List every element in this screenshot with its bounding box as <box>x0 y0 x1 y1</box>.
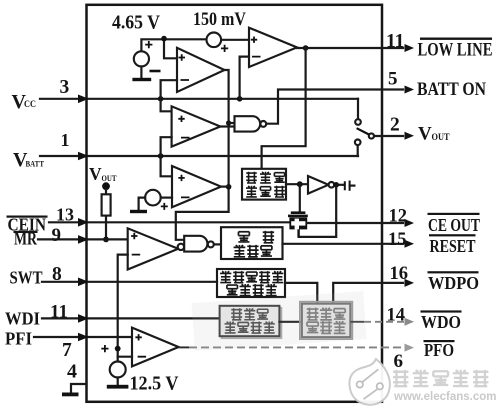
pin 11 LOW LINE arrowhead <box>405 44 415 52</box>
CJK text: chip select output control <box>246 172 285 197</box>
pin 15 arrowhead <box>405 240 415 248</box>
wire: compC- to VBATT rail <box>161 137 172 156</box>
pin 11 WDI arrowhead <box>78 314 89 323</box>
node: VBATT / compC- junction <box>158 153 164 159</box>
block: reset generator <box>221 227 283 259</box>
svg-text:V: V <box>418 124 432 145</box>
wire: block to inverter <box>286 183 308 185</box>
svg-text:RESET: RESET <box>430 236 476 256</box>
pin 9 arrowhead <box>78 235 89 244</box>
svg-text:4.65 V: 4.65 V <box>112 13 160 34</box>
wire: input detect to watchdog timer <box>279 321 302 323</box>
wire: WDO net (faded by watermark) <box>350 321 364 323</box>
block: chip select output control <box>242 169 286 200</box>
watermark CJK text <box>393 370 488 387</box>
pin 4 ground lead <box>71 384 87 393</box>
wire: low line down to chip-select block <box>262 48 306 169</box>
label RESET (active low) <box>429 234 476 236</box>
svg-text:www.elecfans.com: www.elecfans.com <box>393 391 496 403</box>
pin 13 arrowhead <box>78 218 89 227</box>
wire: WDI pin11 line <box>42 317 220 319</box>
wire: inverter out <box>334 184 344 186</box>
transistor Q1 (CE pass FET) <box>291 211 306 214</box>
IC boundary box <box>87 5 383 402</box>
wire: switch common to pin 2 <box>374 135 403 137</box>
NAND gate G2 with input bubble <box>178 244 184 250</box>
svg-text:3: 3 <box>60 77 70 98</box>
svg-text:11: 11 <box>50 302 68 323</box>
label MR (active low) <box>14 231 38 233</box>
pin 8 arrowhead <box>78 278 89 287</box>
voltage source V3 (offset) <box>145 190 161 206</box>
label WDO (active low) <box>421 310 462 312</box>
wire: CE OUT net to pin 12 <box>307 222 403 224</box>
pin 1 arrowhead <box>78 152 89 161</box>
block: reset watchdog timebase <box>217 269 285 297</box>
wire: SWT pin8 line <box>42 281 217 283</box>
wire: G1 output to BATT ON pin 5 <box>267 90 403 124</box>
capacitor C1 <box>345 181 350 191</box>
wire: compA- to Vcc rail and compC+ <box>161 80 177 111</box>
wire: gate drive down to FET gate <box>299 184 301 211</box>
wire: PFI pin7 line <box>34 336 132 338</box>
wire: inverter out down to FET source <box>299 185 337 237</box>
svg-text:OUT: OUT <box>102 174 118 183</box>
wire: compD output to bus <box>221 186 229 188</box>
pin 14 arrowhead (faded) <box>405 318 415 326</box>
svg-text:150 mV: 150 mV <box>193 10 247 30</box>
block: watchdog input detect <box>222 308 282 338</box>
pin 2 arrowhead <box>405 132 415 140</box>
resistor R1 (MR pull-up) <box>102 194 111 215</box>
wire: VOUT node to resistor <box>105 189 107 194</box>
svg-text:WDPO: WDPO <box>428 273 479 293</box>
wire: compE- down to 1.25V ref node <box>118 255 128 362</box>
wire: compC output to NAND G1 lower input <box>220 125 234 127</box>
pin 12 arrowhead <box>405 219 415 227</box>
wire: bus stub to NAND G1 upper input <box>229 122 235 124</box>
svg-text:12.5 V: 12.5 V <box>130 373 179 395</box>
NAND gate G1 <box>235 116 261 131</box>
watermark gray wash <box>192 291 367 351</box>
label CEIN (active low) <box>7 216 48 218</box>
svg-text:12: 12 <box>389 207 408 227</box>
svg-text:LOW LINE: LOW LINE <box>418 40 493 61</box>
svg-text:11: 11 <box>386 31 404 52</box>
svg-text:4: 4 <box>67 361 77 383</box>
svg-text:OUT: OUT <box>432 132 450 142</box>
svg-text:PFO: PFO <box>424 340 454 360</box>
CJK text: reset watchdog timebase <box>220 271 283 296</box>
node: bus to compD output <box>226 184 232 190</box>
svg-text:SWT: SWT <box>10 268 43 288</box>
wire: compF- to ref node <box>118 356 132 358</box>
svg-text:6: 6 <box>394 351 404 372</box>
voltage source V1 4.65V <box>134 51 149 66</box>
voltage source V2 150mV <box>207 33 222 48</box>
pin 6 arrowhead (faded) <box>405 344 415 352</box>
wire: Vcc rail pin3 to switch top <box>40 98 358 100</box>
pin 5 arrowhead <box>405 86 415 94</box>
svg-text:15: 15 <box>388 230 407 250</box>
svg-text:BATT ON: BATT ON <box>417 79 486 100</box>
label WDPO (active low) <box>428 271 479 273</box>
wire: VBATT rail down to compD+ <box>161 156 172 176</box>
CJK text: watchdog timer <box>307 308 346 334</box>
wire: V2 to compB+ <box>221 39 249 41</box>
svg-text:CE OUT: CE OUT <box>428 215 480 235</box>
wire: LOW LINE output net <box>297 47 403 49</box>
CJK text: watchdog input detect <box>225 308 275 333</box>
node: ref top junction <box>161 36 167 42</box>
label CE OUT (active low) <box>428 213 480 215</box>
svg-text:7: 7 <box>62 340 72 361</box>
wire: watchdog timer to WDPO pin16 <box>333 283 403 304</box>
node: inverter out junction <box>333 182 339 188</box>
wire: RESET output net <box>283 243 404 245</box>
node: VOUT terminal <box>102 182 110 190</box>
wire: G2 out to reset generator <box>214 243 221 245</box>
op-amp U1 (top comparator) <box>177 48 225 92</box>
svg-text:WDI: WDI <box>5 309 40 329</box>
wire: resistor to MR line <box>105 216 107 240</box>
node: gate drive junction <box>297 181 303 187</box>
wire: V3 to compD- <box>161 197 172 199</box>
CJK text: reset generator <box>234 231 275 257</box>
ground for V1 <box>140 67 142 78</box>
op-amp U3 (third comparator) <box>172 106 221 146</box>
ground for V3 <box>139 198 146 210</box>
switch S1 (Vout select) <box>357 99 359 119</box>
op-amp U4 (battery comparator) <box>172 166 221 207</box>
svg-text:MR: MR <box>14 229 37 249</box>
svg-text:5: 5 <box>388 69 398 90</box>
wire: MR line pin9 to compE+ <box>38 238 128 240</box>
ground for V4 <box>117 378 119 385</box>
pin 7 arrowhead <box>78 333 89 342</box>
wire: timebase out to watchdog timer <box>285 283 317 304</box>
op-amp U6 (power fail comparator) <box>132 328 179 367</box>
wire: compA output bus down <box>176 70 229 240</box>
svg-text:1: 1 <box>61 130 70 150</box>
svg-text:8: 8 <box>52 264 62 285</box>
wire: PFO net (faded by watermark) <box>179 346 189 348</box>
pin 16 arrowhead <box>405 279 415 287</box>
op-amp U5 (reset comparator) <box>128 228 179 269</box>
svg-text:9: 9 <box>52 225 62 246</box>
svg-text:2: 2 <box>390 115 400 136</box>
svg-text:PFI: PFI <box>5 329 32 349</box>
watermark logo blob <box>349 359 389 405</box>
svg-text:V: V <box>89 164 102 184</box>
node: low line junction <box>303 45 309 51</box>
label PFO (active low) <box>424 340 455 342</box>
node: ref node <box>115 346 121 352</box>
node: Vcc / compA- junction <box>158 96 164 102</box>
node: bus to NAND G1 <box>226 120 231 125</box>
op-amp U2 (low line comparator) <box>249 28 297 67</box>
svg-text:CC: CC <box>24 100 36 110</box>
polarity + at ref node <box>101 345 108 352</box>
wire: compB- to Vcc rail <box>240 57 249 99</box>
svg-text:WDO: WDO <box>421 312 461 332</box>
node: MR / resistor junction <box>103 237 109 243</box>
svg-text:16: 16 <box>390 264 409 284</box>
svg-text:BATT: BATT <box>26 159 45 169</box>
pin 3 arrowhead <box>78 95 89 104</box>
voltage source V4 12.5V <box>110 362 126 378</box>
label LOW LINE (active low) <box>420 38 492 40</box>
wire: 4.65V ref node to compA+ <box>141 39 206 59</box>
node: Vcc / compB- junction <box>237 96 243 102</box>
svg-text:13: 13 <box>56 205 74 225</box>
svg-text:14: 14 <box>387 306 406 326</box>
wire: VBATT rail pin1 to switch bottom <box>40 155 358 157</box>
wire: CEIN line pin13 to pass transistor <box>49 221 289 223</box>
block: watchdog timer <box>300 302 352 339</box>
inverter G3 <box>308 176 328 194</box>
